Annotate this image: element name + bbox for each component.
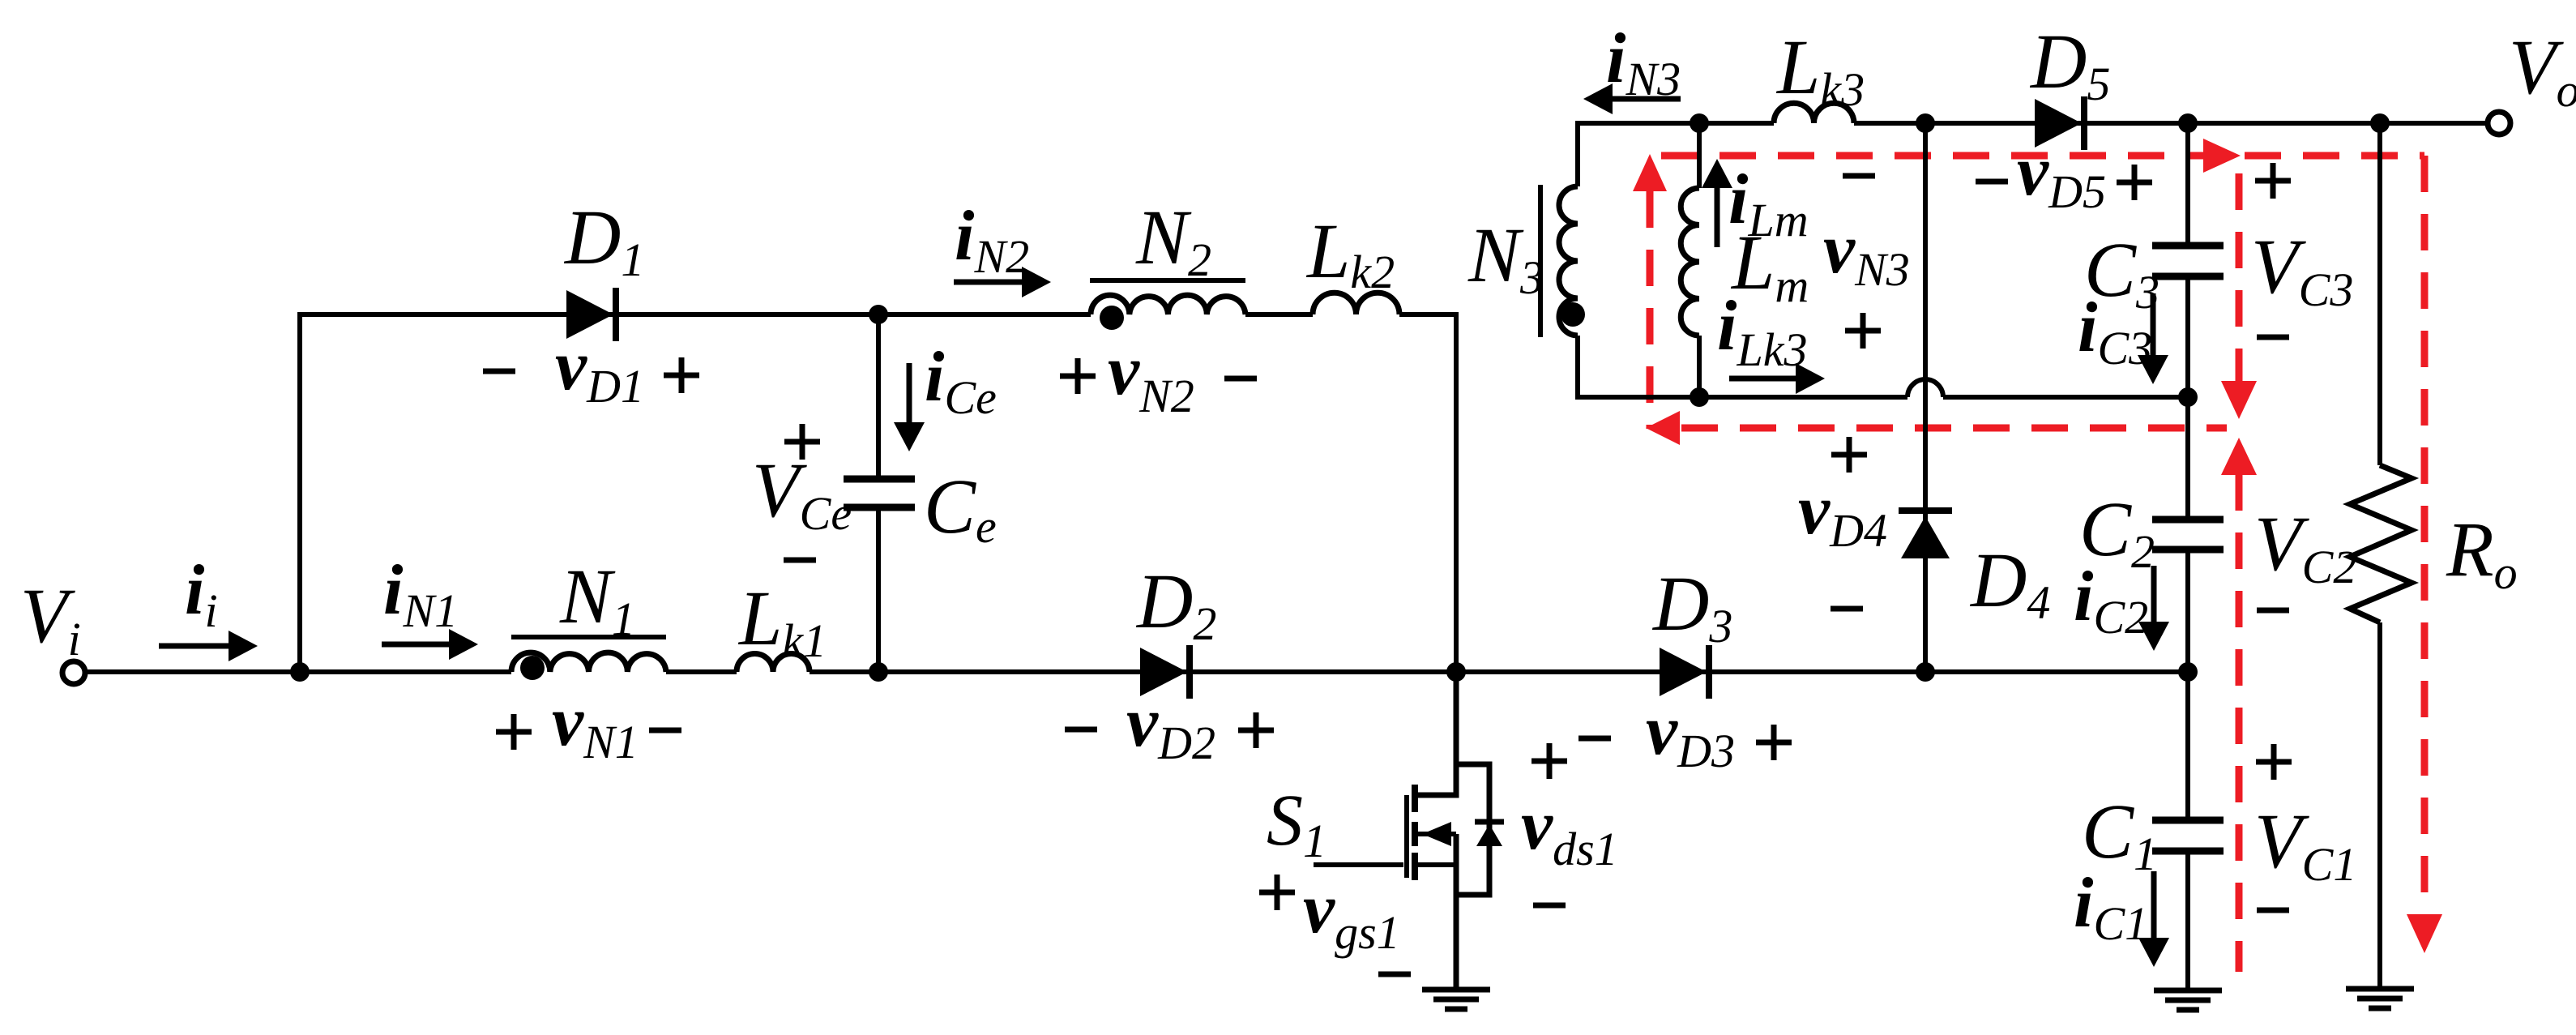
wire N3 loop bottom left of hop	[1575, 395, 1907, 400]
wire Ce branch lower	[876, 507, 881, 672]
plus sign VC1	[2256, 744, 2292, 780]
wire Lm branch upper	[1697, 123, 1702, 188]
capacitor C1	[2152, 820, 2224, 851]
red dashed VC3 branch upper	[2236, 173, 2243, 381]
junction Ro top node	[2370, 113, 2390, 133]
inductor Lk3	[1774, 103, 1854, 123]
inductor winding N1	[511, 652, 666, 672]
red arrow left on bottom dashed	[1646, 411, 1680, 445]
red dashed bottom segment	[1681, 425, 2227, 432]
wire Ro branch top	[2377, 123, 2382, 465]
arrow i_i	[159, 631, 258, 661]
plus sign vD2	[1238, 712, 1274, 748]
minus sign vD5	[1976, 179, 2008, 185]
red arrow right on top dashed	[2203, 139, 2241, 173]
plus sign vds1	[1532, 743, 1567, 779]
minus sign vgs1	[1378, 972, 1411, 977]
arrow i_C2	[2138, 566, 2169, 651]
minus sign VC3	[2257, 335, 2289, 340]
minus sign VCe	[784, 558, 816, 563]
junction input node	[290, 662, 310, 682]
plus sign vD3	[1756, 725, 1792, 760]
minus sign vD2	[1065, 727, 1097, 733]
arrow i_N3	[1583, 83, 1681, 114]
resistor Ro	[2350, 465, 2412, 622]
wire N3 loop left branch upper	[1575, 121, 1580, 186]
plus sign vN3	[1845, 313, 1881, 349]
wire bottom rail N1 to Lk1	[666, 669, 737, 674]
diode D5	[2035, 96, 2084, 150]
N3 polarity dot	[1561, 302, 1585, 327]
wire output column C3 bottom to loop node	[2185, 276, 2190, 520]
transistor S1 MOSFET	[1314, 672, 1456, 990]
wire top rail N3 loop top	[1578, 121, 1774, 126]
diode D1	[566, 288, 616, 341]
minus sign vN2	[1224, 376, 1257, 382]
arrow i_Lm	[1702, 159, 1732, 247]
junction C3 top node	[2178, 113, 2198, 133]
inductor winding N2	[1091, 295, 1245, 314]
inductor Lk2	[1313, 293, 1399, 314]
plus sign vD5	[2117, 165, 2152, 200]
junction output column bottom rail node	[2178, 662, 2198, 682]
capacitor C2	[2152, 520, 2224, 550]
red dashed left vertical segment	[1647, 191, 1654, 429]
arrow i_C3	[2138, 293, 2168, 384]
wire output column C3 top	[2185, 123, 2190, 246]
N3 core bar	[1538, 185, 1543, 337]
N1 polarity dot	[520, 656, 545, 680]
junction C3 bottom node	[2178, 387, 2198, 407]
arrow i_Lk3	[1729, 363, 1825, 394]
red arrow down at Ro bottom	[2407, 914, 2442, 953]
wire N3 loop left branch lower	[1575, 336, 1580, 397]
terminal Vo	[2488, 112, 2510, 135]
ground at S1 source	[1422, 990, 1490, 1009]
minus sign VC1	[2257, 908, 2289, 913]
arrow i_N1	[382, 629, 478, 660]
minus sign vN3	[1843, 173, 1875, 179]
arrow i_N2	[954, 267, 1051, 297]
wire output column C1 bottom to ground	[2185, 851, 2190, 990]
junction S1 drain node	[1446, 662, 1466, 682]
minus sign vD1	[483, 369, 515, 374]
wire hop over D4 branch	[1907, 379, 1943, 397]
wire mid rail N2 to Lk2	[1245, 312, 1313, 317]
junction Lm top node	[1690, 113, 1709, 133]
minus sign vD4	[1831, 606, 1863, 612]
red arrow up at N3 loop	[1633, 154, 1667, 191]
red dashed loop top segment	[1661, 152, 2424, 160]
minus sign vds1	[1533, 903, 1566, 909]
red dashed VC3 branch lower	[2236, 474, 2243, 972]
transformer winding N3	[1559, 186, 1578, 336]
wire Ce branch upper	[876, 314, 881, 479]
diode D3	[1660, 645, 1709, 699]
arrow i_C1	[2138, 871, 2169, 967]
inductor Lk1	[737, 654, 810, 673]
wire input riser	[297, 314, 302, 672]
plus sign vD4	[1831, 437, 1867, 473]
capacitor Ce	[844, 479, 915, 507]
capacitor C3	[2152, 246, 2224, 276]
inductor winding Lm	[1681, 188, 1699, 336]
ground at C1	[2154, 990, 2222, 1010]
wire N3 loop bottom right of hop	[1943, 395, 2188, 400]
diode D4	[1899, 511, 1952, 558]
plus sign VC3	[2255, 163, 2291, 199]
ground at Ro	[2346, 989, 2414, 1008]
S1 body diode	[1475, 822, 1504, 846]
plus sign VCe	[784, 424, 820, 460]
junction D4 top node	[1916, 113, 1935, 133]
minus sign vD3	[1578, 736, 1611, 742]
plus sign vN1	[496, 714, 532, 750]
wire D4 branch vertical	[1923, 123, 1928, 672]
plus sign vgs1	[1259, 875, 1295, 910]
wire mid rail Lk2 to corner and riser to S1 drain node	[1399, 314, 1456, 672]
terminal Vi	[62, 661, 85, 684]
plus sign vN2	[1060, 358, 1096, 394]
diode D2	[1140, 645, 1190, 699]
S1 body diode branch	[1456, 764, 1489, 895]
wire Ro branch bottom	[2377, 622, 2382, 989]
N2 overbar	[1090, 278, 1245, 283]
red arrow up below VC3 node	[2221, 438, 2257, 475]
wire bottom rail from Vi to N1	[85, 669, 511, 674]
N1 overbar	[511, 635, 666, 639]
N2 polarity dot	[1100, 306, 1124, 330]
wire top rail Lk3 to Vo	[1854, 121, 2488, 126]
wire output column C2 bottom to bottom rail	[2185, 550, 2190, 820]
plus sign vD1	[664, 357, 699, 393]
red dashed right vertical segment	[2421, 156, 2429, 913]
wire Lm branch lower	[1697, 336, 1702, 397]
wire bottom rail Lk1 to output column	[810, 669, 2188, 674]
junction D4 bottom node	[1916, 662, 1935, 682]
junction Lm bottom node	[1690, 387, 1709, 407]
arrow i_Ce	[894, 363, 925, 451]
junction Ce bottom node	[869, 662, 888, 682]
wire mid rail D1 row	[297, 312, 1091, 317]
minus sign VC2	[2257, 608, 2289, 614]
red arrow down above VC3 node	[2221, 381, 2257, 419]
junction Ce top node	[869, 305, 888, 324]
minus sign vN1	[649, 728, 681, 733]
